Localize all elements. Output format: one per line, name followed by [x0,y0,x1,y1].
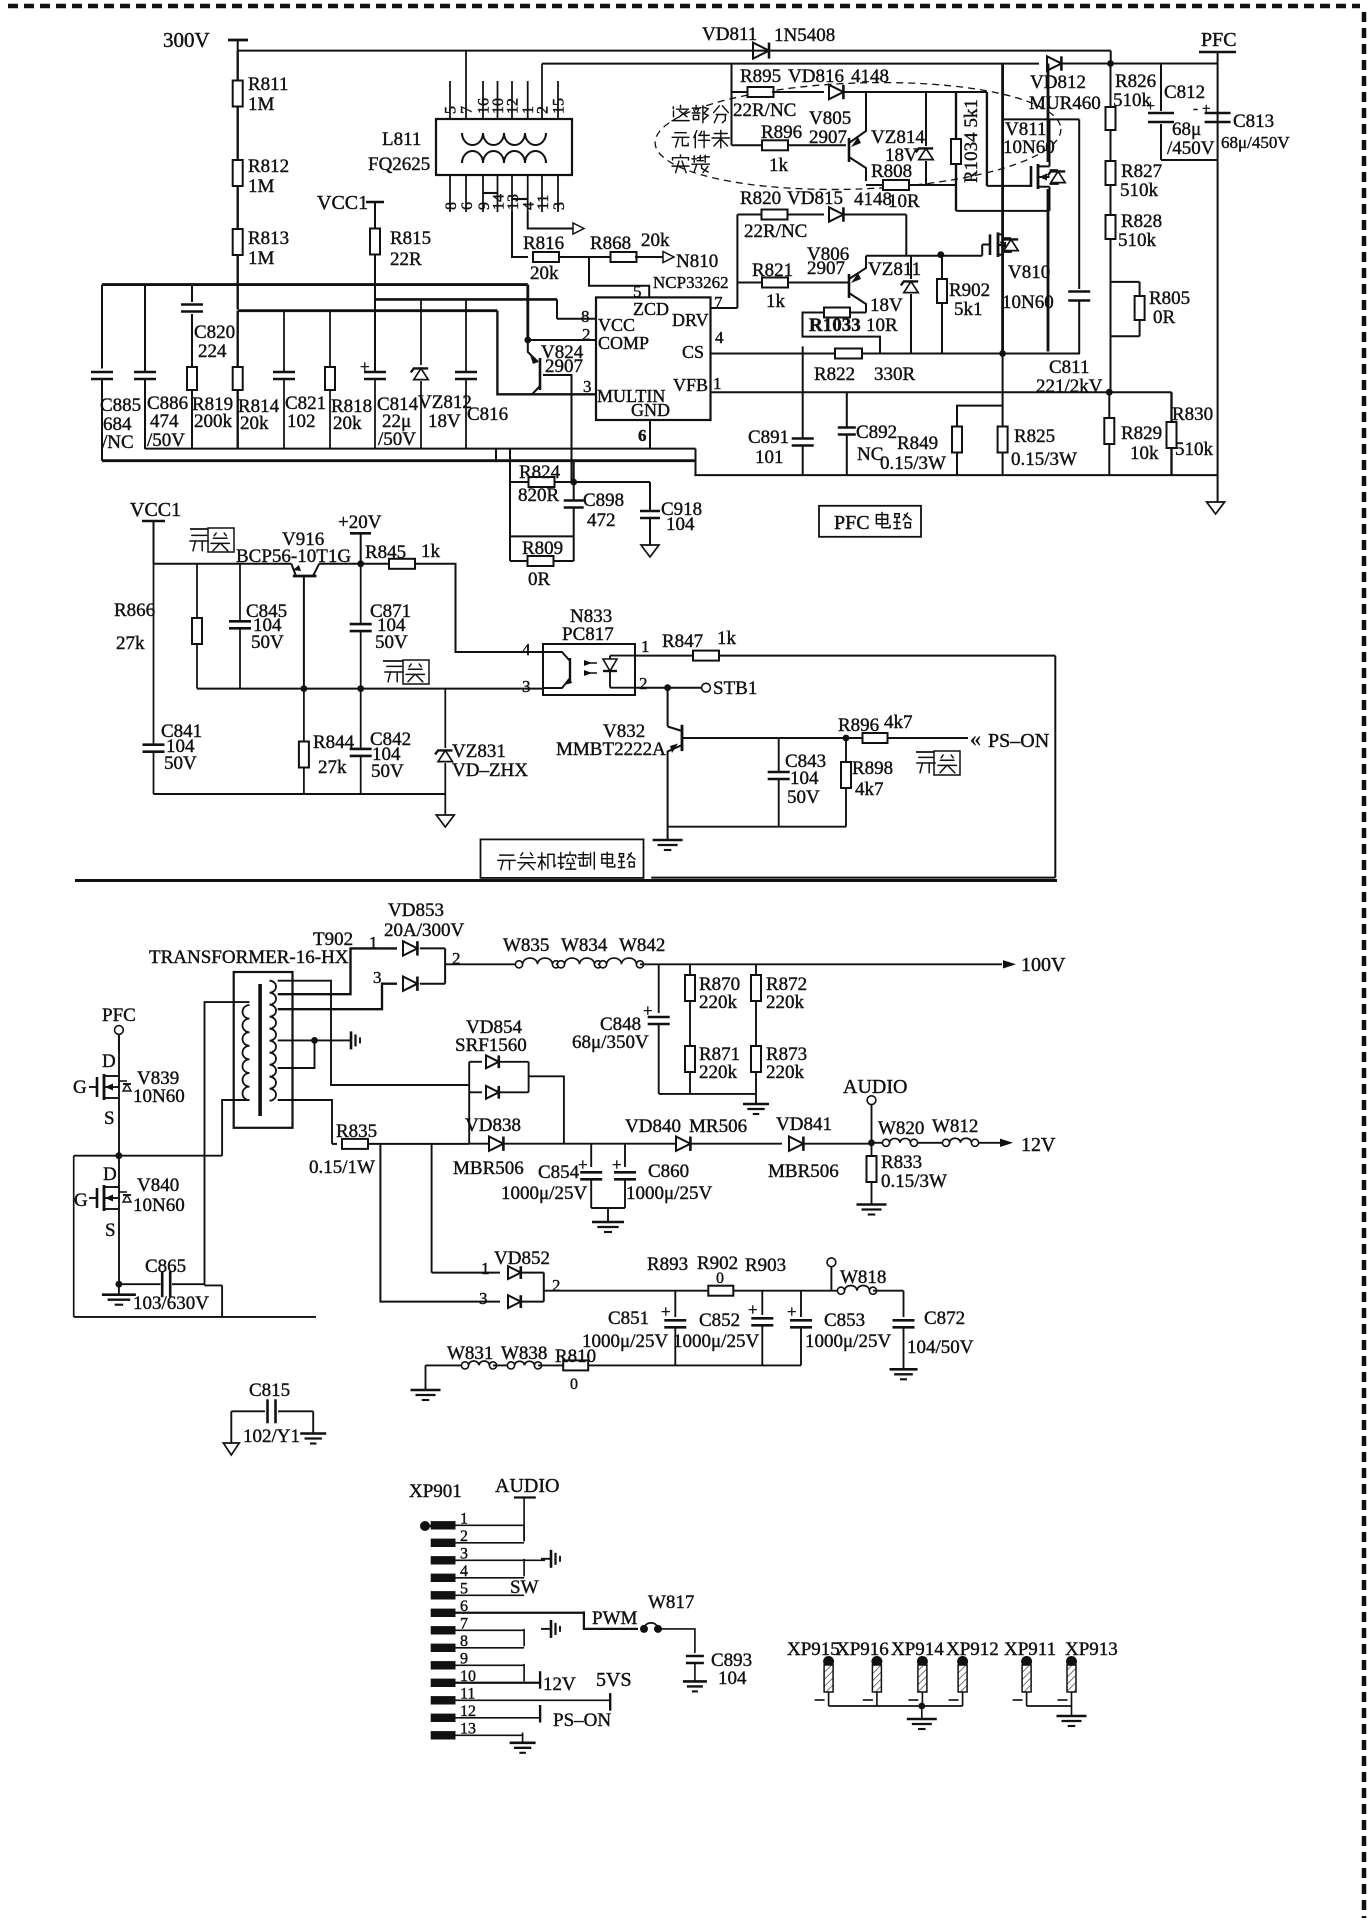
wire VD852 pin1 feed [431,1144,433,1273]
svg-text:1000μ/25V: 1000μ/25V [805,1331,891,1352]
svg-text:MR506: MR506 [689,1116,747,1137]
node 12V [1000,1139,1013,1147]
svg-text:102/Y1: 102/Y1 [243,1426,300,1447]
svg-text:820R: 820R [518,485,560,506]
fuse W831 [426,1364,466,1366]
svg-text:100V: 100V [1021,954,1066,976]
resistor R821 [737,281,762,283]
resistor R824 [509,448,511,561]
svg-text:R809: R809 [522,538,563,559]
svg-text:3: 3 [479,1289,488,1308]
capacitor C865 [119,1283,161,1285]
svg-text:R825: R825 [1014,426,1055,447]
svg-text:R833: R833 [881,1152,922,1173]
svg-text:D: D [103,1164,117,1185]
resistor R845 [389,559,415,569]
svg-text:18V: 18V [870,295,903,316]
svg-text:7: 7 [714,293,723,312]
capacitor C892 [846,392,848,427]
svg-text:68μ/450V: 68μ/450V [1221,133,1290,152]
svg-text:5: 5 [443,106,460,114]
svg-text:10N60: 10N60 [133,1195,185,1216]
ground R833 [857,1203,887,1206]
svg-text:R902: R902 [949,280,990,301]
wire tap1 to VD854 feed [278,981,470,1085]
resistor R898 [845,738,847,762]
svg-text:C892: C892 [856,422,897,443]
wire R868 to N810 arrow [635,256,663,258]
svg-text:VD816: VD816 [788,66,844,87]
svg-text:11: 11 [535,195,552,210]
svg-text:13: 13 [505,194,522,210]
svg-text:SRF1560: SRF1560 [455,1035,527,1056]
resistor R828 [1106,215,1116,239]
wire L811 pin4 arrow out [528,212,573,229]
svg-text:3: 3 [373,968,382,987]
resistor R896 [732,144,764,146]
diode VD815 4148 [787,213,824,215]
fuse W818 [801,1290,838,1292]
svg-text:10k: 10k [1130,443,1159,464]
svg-text:R822: R822 [814,364,855,385]
fuse W842 [598,963,603,965]
ground C854 C860 [591,1207,625,1209]
svg-text:4148: 4148 [851,66,889,87]
svg-text:1: 1 [713,374,722,393]
wire V811 source link [956,210,1050,212]
resistor R833 [871,1143,873,1156]
resistor R1033 [849,311,866,313]
capacitor C843 [778,738,780,771]
svg-text:R868: R868 [590,233,631,254]
ground V832 emitter [653,839,683,842]
chassis XP901 pin7 [541,1628,551,1630]
svg-text:XP914: XP914 [891,1639,944,1660]
svg-text:W820: W820 [878,1118,924,1139]
ground XP901 pin13 [522,1733,524,1743]
svg-text:1M: 1M [248,176,275,197]
svg-text:2: 2 [582,325,591,344]
ground C865 [118,1284,120,1295]
node 300V terminal [228,39,248,42]
svg-text:MMBT2222A: MMBT2222A [556,739,666,760]
annotation dashed ellipse not-installed [653,76,1062,196]
svg-text:18V: 18V [885,145,918,166]
ground XP914 group [921,1706,923,1719]
svg-text:PFC: PFC [834,512,870,534]
wire caps outer bottom bus [102,459,696,462]
svg-text:FQ2625: FQ2625 [368,154,430,175]
svg-text:VFB: VFB [673,375,708,395]
transistor V811 10N60 MOSFET [1030,166,1033,187]
wire L811 pin7 to 300V rail [465,51,467,81]
svg-text:DRV: DRV [672,310,709,330]
resistor R810 [563,1360,588,1370]
svg-text:200k: 200k [194,411,233,432]
ground 100V divider [755,1094,757,1104]
wire GND pin6 net [649,420,651,449]
wire VCC1 row [154,563,292,565]
svg-text:C820: C820 [194,322,235,343]
svg-text:220k: 220k [699,992,738,1013]
wire tap5 down [278,1100,332,1144]
svg-text:D: D [102,1051,116,1072]
svg-text:1M: 1M [248,94,275,115]
svg-text:W831: W831 [447,1343,493,1364]
capacitor C854 [590,1144,592,1167]
fuse W812 [918,1142,942,1144]
svg-text:AUDIO: AUDIO [843,1076,907,1098]
svg-text:R827: R827 [1121,161,1162,182]
svg-text:XP901: XP901 [409,1481,462,1502]
wire V832 base node [779,737,846,739]
separator line [75,879,1057,882]
resistor R812 [233,160,243,186]
svg-text:PFC: PFC [1201,29,1237,51]
svg-text:4148: 4148 [854,189,892,210]
svg-text:+20V: +20V [338,512,382,533]
optocoupler N833 PC817 [543,644,635,695]
svg-text:1: 1 [369,933,378,952]
svg-text:R847: R847 [662,631,703,652]
zener VZ812 [420,299,422,365]
wire CS pin4 net [711,352,803,354]
svg-text:8: 8 [443,202,460,210]
diode VD840 MR506 [676,1137,690,1151]
svg-text:4: 4 [522,640,531,659]
svg-text:0.15/1W: 0.15/1W [309,1157,375,1178]
svg-text:101: 101 [755,447,784,468]
svg-text:W842: W842 [619,935,665,956]
capacitor C860 [624,1144,626,1167]
svg-text:+: + [787,1302,797,1321]
svg-text:STB1: STB1 [713,678,757,699]
svg-text:+: + [1202,101,1210,117]
resistor R813 [233,229,243,255]
svg-text:1k: 1k [766,291,786,312]
label switch-2 boxed [383,660,403,662]
svg-text:W838: W838 [501,1343,547,1364]
diode VD816 4148 [772,91,824,93]
svg-text:5VS: 5VS [596,1669,632,1691]
svg-text:G: G [73,1077,87,1098]
fuse W835 [515,961,522,968]
svg-text:R896: R896 [761,122,802,143]
svg-text:W817: W817 [648,1592,694,1613]
svg-text:15: 15 [551,98,568,114]
svg-text:50V: 50V [164,753,197,774]
svg-text:PC817: PC817 [562,624,614,645]
svg-text:VD–ZHX: VD–ZHX [452,760,528,781]
wire V811 rail [1047,64,1050,163]
wire VD816 node to V811 gate [986,92,988,186]
svg-text:2907: 2907 [807,258,845,279]
svg-text:XP915: XP915 [787,1639,840,1660]
svg-text:50V: 50V [371,761,404,782]
transistor V810 10N60 MOSFET [989,234,992,255]
svg-text:10N60: 10N60 [133,1086,185,1107]
wire 12V rail A [591,1143,676,1145]
resistor R830 [1170,392,1172,422]
svg-text:«: « [970,726,981,751]
svg-text:1k: 1k [717,628,737,649]
wire PFC bottom bus [694,474,1217,476]
svg-text:104: 104 [790,768,819,789]
resistor R1034 5k1 [955,92,957,139]
svg-text:GND: GND [631,400,670,420]
capacitor C852 [761,1291,763,1315]
svg-text:104: 104 [666,514,695,535]
resistor R818 [329,311,331,367]
resistor R868 [611,252,637,262]
inductor L811 FQ2625 [436,119,572,175]
svg-text:V805: V805 [809,108,851,129]
svg-text:AUDIO: AUDIO [495,1475,559,1497]
svg-text:R866: R866 [114,600,155,621]
svg-text:20k: 20k [333,413,362,434]
wire PWM net [584,1611,638,1629]
wire XP901 pin4 up [523,1559,525,1577]
capacitor C842 [360,689,362,748]
svg-text:C851: C851 [608,1308,649,1329]
svg-text:V840: V840 [137,1175,179,1196]
wire DS junction row [74,1155,222,1157]
wire C848 bottom bus [659,1093,756,1095]
page right dashed border [1362,12,1367,1918]
svg-text:R1034 5k1: R1034 5k1 [961,99,982,183]
svg-text:XP912: XP912 [946,1639,999,1660]
svg-text:XP916: XP916 [836,1639,889,1660]
capacitor C885 [101,285,103,369]
svg-text:50V: 50V [375,632,408,653]
svg-text:12V: 12V [1021,1134,1056,1156]
wire C851 C853 bottom [675,1364,801,1366]
svg-text:G: G [74,1190,88,1211]
svg-text:R828: R828 [1121,211,1162,232]
fuse W838 [493,1364,511,1366]
svg-text:VD815: VD815 [787,188,843,209]
capacitor C851 [674,1291,676,1317]
svg-text:0.15/3W: 0.15/3W [1011,449,1077,470]
svg-text:/NC: /NC [102,432,134,453]
wire DRV pin7 riser [711,307,738,309]
wire XP915-XP912 bus [829,1705,963,1707]
svg-text:4: 4 [715,328,724,347]
resistor R805 [1112,281,1140,283]
svg-text:R898: R898 [852,758,893,779]
node STB1 [635,687,668,689]
svg-text:C885: C885 [100,395,141,416]
wire PFC right rail [1217,64,1219,503]
node VCC1 terminal [366,201,384,204]
resistor R815 [370,229,380,255]
wire caps inner bottom bus [145,448,696,450]
svg-text:10R: 10R [866,315,898,336]
svg-text:C816: C816 [467,404,508,425]
svg-text:0.15/3W: 0.15/3W [880,453,946,474]
svg-text:C852: C852 [699,1310,740,1331]
zener VZ811 [910,256,912,279]
wire +20V row [319,563,361,565]
svg-text:472: 472 [587,510,616,531]
svg-text:12V: 12V [543,1674,576,1695]
svg-text:R815: R815 [390,228,431,249]
svg-text:R835: R835 [336,1121,377,1142]
resistor R895 [732,91,750,93]
svg-text:12: 12 [505,98,522,114]
resistor R825 [1002,354,1004,427]
svg-text:2907: 2907 [809,127,847,148]
wire XP901 pin8 up [523,1629,525,1647]
wire VFB pin1 net [711,391,1172,393]
svg-text:C815: C815 [249,1380,290,1401]
svg-text:R805: R805 [1149,288,1190,309]
svg-text:R811: R811 [248,74,288,95]
svg-text:PFC: PFC [102,1005,136,1026]
svg-text:VD811: VD811 [702,24,757,45]
ground XP913 group [1071,1706,1073,1716]
svg-text:4k7: 4k7 [884,712,913,733]
transformer T902 [234,972,293,1128]
svg-text:+: + [748,1300,758,1319]
svg-text:/50V: /50V [378,429,416,450]
svg-text:50V: 50V [787,787,820,808]
svg-text:R849: R849 [897,433,938,454]
svg-text:103/630V: 103/630V [133,1293,209,1314]
svg-text:VZ811: VZ811 [868,259,921,280]
svg-text:NCP33262: NCP33262 [653,273,729,292]
svg-text:C853: C853 [824,1310,865,1331]
svg-text:20k: 20k [240,413,269,434]
svg-text:VD812: VD812 [1030,72,1086,93]
svg-text:R830: R830 [1172,404,1213,425]
svg-text:1k: 1k [769,155,789,176]
capacitor C918 [574,481,650,483]
svg-text:R824: R824 [519,462,561,483]
resistor R844 [303,689,305,741]
wire VD815 to gate line [905,215,907,256]
diode VD812 MUR460 [1047,56,1061,70]
wire sec2 bottom rail [154,793,446,795]
svg-text:R896: R896 [838,715,879,736]
capacitor C812 68u/450V [1160,64,1162,112]
label PS-ON tick [539,1705,541,1723]
svg-text:10R: 10R [888,191,920,212]
node W818 term [827,1258,836,1267]
resistor R847 [635,655,694,657]
svg-text:PS–ON: PS–ON [988,730,1049,752]
svg-text:R895: R895 [740,66,781,87]
wire mid row [197,688,543,690]
capacitor C893 [686,1655,704,1658]
label switch-3 boxed [916,751,934,753]
wire COMP net [526,285,529,340]
wire tap5 right [332,1100,432,1144]
svg-text:221/2kV: 221/2kV [1036,376,1103,397]
svg-text:R826: R826 [1115,71,1156,92]
svg-text:2: 2 [535,106,552,114]
wire V811 drain link [1003,118,1080,120]
label standby control box [481,839,644,878]
diode VD841 MBR506 [789,1137,803,1151]
svg-text:S: S [104,1108,115,1129]
svg-text:VZ831: VZ831 [452,741,506,762]
svg-text:/450V: /450V [1167,138,1215,159]
svg-text:VZ812: VZ812 [418,392,472,413]
wire top bus A [102,283,528,286]
svg-text:0.15/3W: 0.15/3W [881,1171,947,1192]
capacitor C891 [802,354,804,439]
svg-text:1k: 1k [421,541,441,562]
svg-text:VD838: VD838 [465,1115,521,1136]
svg-text:1: 1 [641,637,650,656]
resistor R820 [737,213,762,215]
fuse W834 [556,963,561,965]
capacitor C814 polarized [364,371,386,374]
wire center tap to chassis [278,1039,341,1041]
wire 100V line [659,963,1002,965]
svg-text:1M: 1M [248,248,275,269]
resistor R870 [689,964,691,975]
svg-text:220k: 220k [766,1062,805,1083]
svg-text:C872: C872 [924,1308,965,1329]
svg-text:68μ: 68μ [1172,119,1201,140]
capacitor C811 221/2kV [1078,119,1080,289]
svg-text:3: 3 [522,677,531,696]
resistor R896 pson [863,733,888,743]
svg-text:510k: 510k [1118,230,1157,251]
resistor R822 [835,349,862,359]
capacitor C845 [239,564,241,621]
wire primary top [205,1002,250,1285]
svg-text:R893: R893 [647,1254,688,1275]
resistor R871 [685,1046,695,1072]
svg-text:2: 2 [552,1276,561,1295]
svg-text:510k: 510k [1175,439,1214,460]
resistor R826 [1109,64,1111,108]
svg-text:474: 474 [150,411,179,432]
svg-text:10N60: 10N60 [1002,292,1054,313]
svg-text:C812: C812 [1164,82,1205,103]
svg-text:0R: 0R [1153,307,1176,328]
svg-text:2907: 2907 [545,356,583,377]
svg-text:6: 6 [638,426,647,445]
svg-text:6: 6 [459,202,476,210]
svg-text:L811: L811 [382,129,421,150]
svg-text:330R: 330R [874,364,916,385]
svg-text:102: 102 [287,411,316,432]
wire V810 gate line [866,255,982,257]
connector XP901 [420,1521,430,1531]
svg-text:20k: 20k [530,263,559,284]
label PFC circuit box [819,506,921,537]
fuse W820 [872,1142,884,1144]
resistor R849 [956,453,958,476]
chassis XP901 pin3 [541,1558,551,1560]
svg-text:R845: R845 [365,542,406,563]
fuse W817 [640,1625,648,1633]
svg-text:COMP: COMP [598,333,649,353]
resistor R814 [237,311,239,367]
op-amp U1 N810 NCP33262 PFC controller [596,297,711,420]
wire HV vertical [1001,64,1004,354]
capacitor C841 [153,564,155,744]
svg-text:510k: 510k [1120,180,1159,201]
svg-text:SW: SW [510,1577,539,1598]
svg-text:VCC: VCC [598,315,635,335]
wire XP901 pin9 down [523,1664,525,1682]
svg-text:S: S [105,1220,116,1241]
